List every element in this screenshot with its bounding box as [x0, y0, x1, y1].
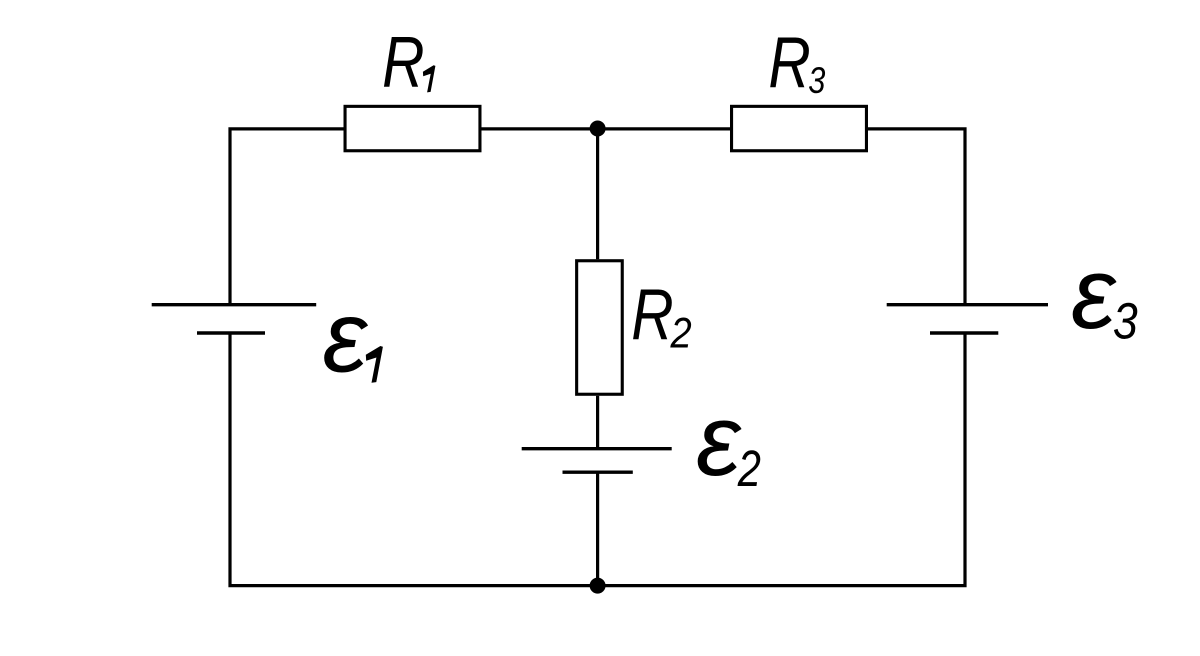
battery E1 short plate	[197, 331, 265, 334]
wire left-top: from battery E1 up and across to R1	[230, 129, 344, 305]
battery E2 short plate	[563, 471, 633, 474]
svg-text:3: 3	[1113, 292, 1138, 350]
svg-text:ε: ε	[696, 385, 742, 497]
battery E3 long plate	[887, 303, 1048, 306]
svg-text:2: 2	[670, 308, 692, 357]
battery E1 long plate	[152, 303, 317, 306]
svg-text:R: R	[768, 21, 810, 102]
wire: R2 down to battery E2	[596, 396, 599, 449]
svg-text:R: R	[382, 20, 424, 101]
wire right-top: from R3 across and down to battery E3	[868, 129, 965, 305]
wire: top node down to R2	[596, 129, 599, 259]
resistor R3	[732, 106, 867, 150]
svg-text:R: R	[631, 273, 673, 354]
label R2	[631, 273, 691, 357]
label E1 (emf epsilon 1)	[323, 282, 383, 394]
label E2 (emf epsilon 2)	[696, 385, 761, 497]
svg-text:2: 2	[737, 440, 761, 497]
wire right-bottom: from battery E3 down and across to bottom node	[598, 333, 965, 586]
wire left-bottom: from battery E1 down and across to bottom node	[230, 333, 598, 586]
wire: battery E2 down to bottom node	[596, 472, 599, 585]
label R3	[768, 21, 825, 102]
node top junction	[590, 121, 606, 137]
node bottom junction	[590, 578, 606, 594]
svg-text:3: 3	[808, 60, 825, 101]
label E3 (emf epsilon 3)	[1071, 238, 1138, 350]
label R1	[382, 20, 435, 101]
resistor R2	[577, 261, 623, 395]
battery E2 long plate	[522, 447, 672, 450]
svg-text:ε: ε	[1071, 238, 1117, 350]
svg-text:ε: ε	[323, 282, 369, 394]
wire: R1 to R3 through top node	[482, 127, 731, 130]
resistor R1	[345, 106, 480, 150]
battery E3 short plate	[930, 331, 998, 334]
